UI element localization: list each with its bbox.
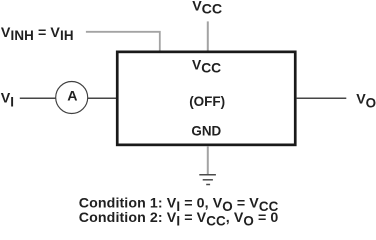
svg-text:(OFF): (OFF) xyxy=(189,94,225,109)
svg-text:A: A xyxy=(67,89,77,105)
svg-text:VO: VO xyxy=(356,91,376,110)
wire box bottom GND pin to ground xyxy=(207,146,209,174)
svg-text:Condition 2: VI = VCC, VO = 0: Condition 2: VI = VCC, VO = 0 xyxy=(79,210,279,229)
svg-text:GND: GND xyxy=(191,124,221,139)
ground symbol xyxy=(199,175,216,185)
wire VINH to box top (L-bend) xyxy=(86,32,160,51)
wire VCC supply to box top xyxy=(207,21,209,50)
wire ammeter to box left pin xyxy=(88,97,116,99)
wire VI to ammeter xyxy=(20,97,56,99)
wire box right pin to VO xyxy=(297,97,347,99)
DUT box (device under test, OFF) xyxy=(117,52,295,145)
ammeter A xyxy=(56,82,88,114)
svg-text:VCC: VCC xyxy=(192,57,221,75)
svg-text:VI: VI xyxy=(1,91,14,110)
svg-text:VCC: VCC xyxy=(192,0,222,18)
svg-text:VINH = VIH: VINH = VIH xyxy=(1,25,74,43)
